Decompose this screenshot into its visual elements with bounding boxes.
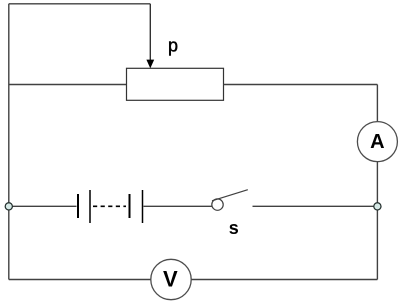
dashed wire battery continuation [93,205,126,207]
node left terminal [5,203,12,210]
wire right node down to bottom [376,210,378,280]
wire left vertical [8,4,10,280]
wire battery to switch [144,205,213,207]
svg-text:V: V [163,266,178,291]
wire left node to battery [9,205,77,207]
svg-text:p: p [168,36,178,56]
svg-text:s: s [229,218,239,238]
wire left vertical to rheostat [9,84,127,86]
wire switch to right node [253,205,378,207]
battery cell 2 [130,190,143,223]
wire bottom right segment [191,279,377,281]
wire ammeter to right node [376,162,378,203]
battery cell 1 [78,190,90,223]
wire bottom left segment [9,279,151,281]
ammeter A [357,122,397,162]
wire arrow stem down to potentiometer [149,4,151,60]
wire right vertical down to ammeter [376,85,378,123]
svg-text:A: A [370,131,384,153]
rheostat P (rectangle) [127,68,224,100]
wire top horizontal [9,3,151,5]
wire rheostat to right vertical [224,84,378,86]
arrowhead onto potentiometer [146,60,154,69]
switch S [212,190,248,211]
node right terminal [374,203,381,210]
voltmeter V [151,259,191,299]
